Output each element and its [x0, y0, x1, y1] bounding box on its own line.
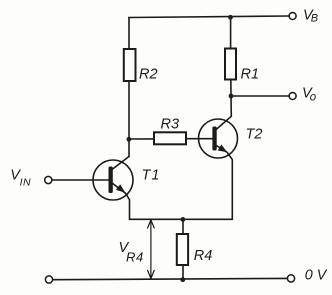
- node emitter rail junction dot: [181, 217, 186, 222]
- svg-text:R1: R1: [241, 67, 260, 83]
- label Vo: [302, 86, 317, 104]
- svg-text:B: B: [311, 13, 318, 25]
- wire R4 top lead: [182, 219, 184, 234]
- wire R1 bottom to T2 collector: [216, 80, 232, 130]
- wire top rail VB: [129, 16, 289, 18]
- wire bottom rail: [53, 278, 288, 279]
- terminal Vo: [289, 93, 296, 100]
- transistor T1 circle: [93, 160, 133, 200]
- wire T1 base from Vin: [52, 179, 109, 181]
- wire R3 to T2 base: [186, 138, 214, 140]
- node bottom rail junction dot: [180, 277, 185, 282]
- svg-text:R2: R2: [139, 67, 158, 83]
- svg-text:0 V: 0 V: [305, 268, 328, 284]
- label VR4: [119, 240, 144, 264]
- resistor R3: [154, 132, 186, 144]
- svg-text:o: o: [310, 91, 317, 103]
- terminal bottom left: [45, 276, 52, 283]
- wire R1 top lead: [230, 17, 232, 48]
- label VB: [303, 8, 318, 25]
- node A junction dot: [126, 137, 131, 142]
- wire T1 collector from node A: [111, 157, 129, 171]
- resistor R1: [225, 49, 236, 80]
- svg-text:R3: R3: [161, 116, 180, 132]
- transistor T1 emitter arrow: [116, 184, 125, 192]
- transistor T2 base bar: [212, 127, 216, 151]
- transistor T2 emitter arrow: [218, 145, 228, 153]
- svg-text:R4: R4: [194, 248, 213, 264]
- transistor T2 circle: [199, 119, 238, 158]
- svg-text:T2: T2: [246, 126, 263, 142]
- node Vo junction dot: [229, 94, 234, 99]
- transistor T1 emitter: [112, 183, 130, 219]
- resistor R2: [124, 49, 136, 81]
- terminal 0V: [287, 275, 294, 282]
- transistor T1 base bar: [109, 167, 113, 194]
- terminal Vin: [45, 176, 52, 183]
- wire left vertical from rail to R2: [128, 18, 130, 50]
- label Vin: [10, 168, 31, 189]
- wire Vo: [231, 95, 289, 97]
- svg-text:IN: IN: [20, 177, 32, 189]
- wire R4 bottom lead: [182, 265, 184, 280]
- wire emitter rail: [130, 218, 233, 220]
- measure arrow VR4: [150, 221, 152, 277]
- terminal VB: [289, 13, 296, 20]
- svg-text:R4: R4: [126, 249, 144, 264]
- wire R2 bottom to node A: [128, 81, 130, 157]
- node top rail junction dot: [228, 15, 233, 20]
- resistor R4: [177, 234, 188, 265]
- wire node A to R3: [129, 138, 154, 140]
- svg-text:T1: T1: [142, 167, 161, 183]
- transistor T2 emitter: [213, 144, 232, 220]
